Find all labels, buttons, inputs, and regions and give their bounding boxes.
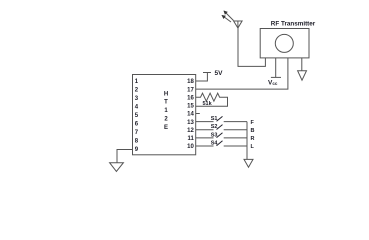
svg-text:R: R — [251, 136, 255, 142]
svg-text:S1: S1 — [211, 116, 218, 122]
svg-text:S2: S2 — [211, 124, 218, 130]
svg-text:F: F — [251, 120, 255, 126]
svg-text:Vcc: Vcc — [268, 79, 278, 86]
svg-text:14: 14 — [187, 112, 194, 118]
svg-text:18: 18 — [187, 79, 194, 85]
svg-text:8: 8 — [135, 139, 139, 145]
svg-text:5: 5 — [135, 113, 139, 119]
svg-text:S3: S3 — [211, 132, 218, 138]
svg-text:6: 6 — [135, 122, 139, 128]
svg-text:2: 2 — [164, 117, 168, 123]
svg-text:3: 3 — [135, 96, 139, 102]
svg-text:51k: 51k — [203, 101, 213, 107]
svg-text:E: E — [164, 125, 168, 131]
svg-text:1: 1 — [164, 108, 168, 114]
svg-text:10: 10 — [187, 144, 194, 150]
svg-text:H: H — [164, 91, 168, 97]
svg-text:1: 1 — [135, 79, 139, 85]
svg-text:16: 16 — [187, 95, 194, 101]
svg-text:7: 7 — [135, 130, 139, 136]
svg-text:5V: 5V — [215, 70, 224, 77]
svg-text:17: 17 — [187, 87, 194, 93]
svg-text:S4: S4 — [211, 140, 219, 146]
svg-text:B: B — [251, 128, 255, 134]
svg-text:4: 4 — [135, 105, 139, 111]
svg-text:13: 13 — [187, 120, 194, 126]
svg-text:11: 11 — [187, 136, 194, 142]
svg-text:RF Transmitter: RF Transmitter — [271, 20, 316, 27]
svg-text:T: T — [164, 100, 168, 106]
svg-text:9: 9 — [135, 147, 139, 153]
svg-text:L: L — [251, 144, 255, 150]
svg-text:15: 15 — [187, 104, 194, 110]
svg-text:2: 2 — [135, 88, 139, 94]
svg-text:12: 12 — [187, 128, 194, 134]
